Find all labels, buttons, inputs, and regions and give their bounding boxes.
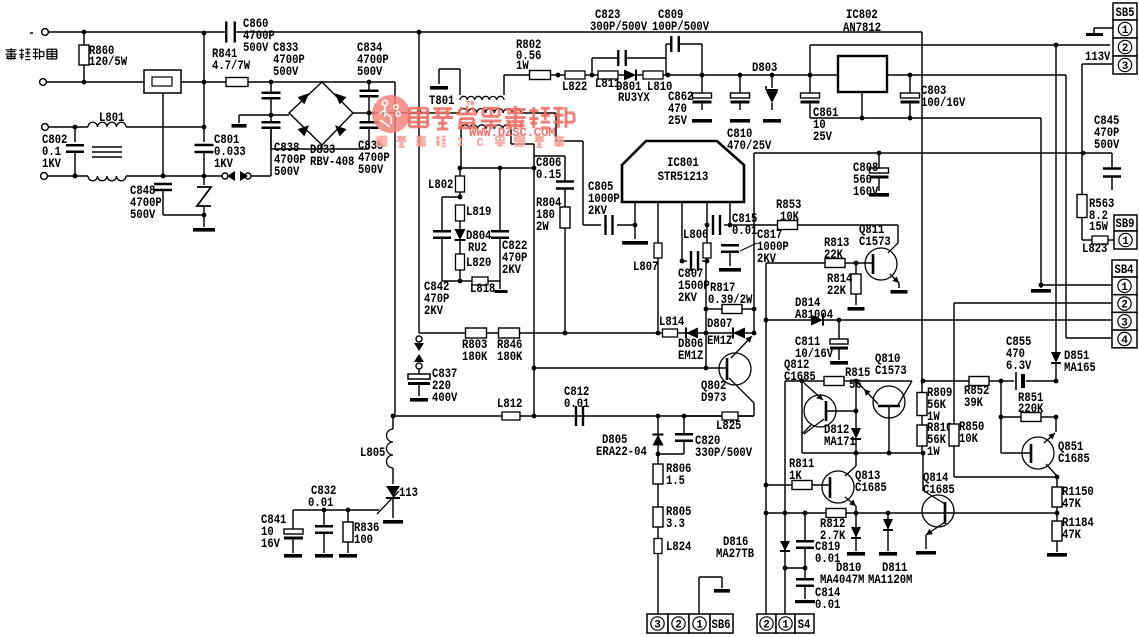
svg-text:2: 2 <box>763 620 770 632</box>
svg-text:S4: S4 <box>798 618 811 632</box>
svg-text:MA4047M: MA4047M <box>820 573 864 587</box>
svg-text:0.01: 0.01 <box>308 496 333 510</box>
svg-text:4: 4 <box>1121 335 1128 347</box>
svg-text:0.01: 0.01 <box>815 552 840 566</box>
svg-text:AN7812: AN7812 <box>843 21 881 35</box>
svg-text:RU2: RU2 <box>468 241 487 255</box>
svg-text:3.3: 3.3 <box>666 517 685 531</box>
svg-text:330P/500V: 330P/500V <box>695 446 753 460</box>
svg-text:D807: D807 <box>707 317 732 331</box>
svg-text:MA171: MA171 <box>824 435 856 449</box>
svg-text:C1573: C1573 <box>859 235 891 249</box>
svg-text:EM1Z: EM1Z <box>707 334 732 348</box>
svg-text:SB5: SB5 <box>1116 6 1135 20</box>
svg-text:2: 2 <box>675 620 682 632</box>
svg-text:L806: L806 <box>683 228 708 242</box>
svg-text:C1573: C1573 <box>875 364 907 378</box>
svg-text:L805: L805 <box>360 446 385 460</box>
svg-text:SB6: SB6 <box>712 618 731 632</box>
svg-text:MA27TB: MA27TB <box>716 547 755 561</box>
svg-text:RBV-408: RBV-408 <box>310 155 354 169</box>
svg-text:SB4: SB4 <box>1115 263 1134 277</box>
svg-text:113: 113 <box>399 486 418 500</box>
svg-text:113V: 113V <box>1085 50 1111 64</box>
svg-text:16V: 16V <box>261 537 280 551</box>
svg-text:IC802: IC802 <box>846 8 878 22</box>
svg-text:1: 1 <box>1122 25 1129 37</box>
svg-text:D803: D803 <box>752 61 777 75</box>
svg-text:C: C <box>477 136 484 150</box>
svg-text:EM1Z: EM1Z <box>678 349 703 363</box>
svg-text:MA1120M: MA1120M <box>868 573 912 587</box>
svg-text:2KV: 2KV <box>424 304 443 318</box>
svg-text:47K: 47K <box>1062 497 1081 511</box>
svg-text:120/5W: 120/5W <box>89 55 128 69</box>
svg-text:RU3YX: RU3YX <box>618 91 650 105</box>
svg-text:L824: L824 <box>666 540 692 554</box>
svg-text:MA165: MA165 <box>1064 361 1096 375</box>
svg-text:L822: L822 <box>562 80 587 94</box>
svg-text:0.39/2W: 0.39/2W <box>708 293 753 307</box>
svg-text:500V: 500V <box>1094 138 1120 152</box>
svg-text:L825: L825 <box>716 419 741 433</box>
svg-text:500V: 500V <box>273 65 299 79</box>
svg-text:0.01: 0.01 <box>815 598 840 612</box>
svg-text:100P/500V: 100P/500V <box>652 20 710 34</box>
svg-text:SB9: SB9 <box>1116 217 1135 231</box>
svg-text:3: 3 <box>1121 317 1128 329</box>
svg-text:10K: 10K <box>959 432 978 446</box>
svg-text:STR51213: STR51213 <box>658 170 709 184</box>
svg-text:ERA22-04: ERA22-04 <box>596 445 647 459</box>
svg-text:2: 2 <box>1122 43 1129 55</box>
svg-text:1KV: 1KV <box>42 157 61 171</box>
svg-text:D973: D973 <box>701 391 726 405</box>
svg-text:2KV: 2KV <box>678 291 697 305</box>
svg-text:2: 2 <box>1121 300 1128 312</box>
svg-text:I: I <box>457 136 464 150</box>
svg-text:100/16V: 100/16V <box>921 96 966 110</box>
svg-text:3: 3 <box>1122 61 1129 73</box>
svg-text:470/25V: 470/25V <box>727 139 772 153</box>
svg-text:1KV: 1KV <box>214 157 233 171</box>
svg-text:25V: 25V <box>813 130 832 144</box>
svg-text:1W: 1W <box>516 59 529 73</box>
svg-text:C1685: C1685 <box>855 481 887 495</box>
svg-text:0.01: 0.01 <box>564 397 589 411</box>
svg-text:39K: 39K <box>964 396 983 410</box>
svg-text:IC801: IC801 <box>667 156 699 170</box>
svg-text:10K: 10K <box>780 210 799 224</box>
svg-text:4.7/7W: 4.7/7W <box>212 59 251 73</box>
svg-text:L802: L802 <box>428 178 453 192</box>
svg-text:6.3V: 6.3V <box>1006 359 1032 373</box>
svg-text:160V: 160V <box>853 185 879 199</box>
svg-text:500V: 500V <box>358 163 384 177</box>
svg-text:180K: 180K <box>462 350 488 364</box>
svg-text:0.15: 0.15 <box>536 168 561 182</box>
svg-text:L814: L814 <box>659 315 685 329</box>
svg-text:15W: 15W <box>1089 220 1108 234</box>
svg-text:500V: 500V <box>274 165 300 179</box>
svg-text:500V: 500V <box>130 208 156 222</box>
svg-text:L820: L820 <box>466 256 491 270</box>
svg-text:1W: 1W <box>927 445 940 459</box>
svg-text:1.5: 1.5 <box>666 474 685 488</box>
svg-text:500V: 500V <box>357 65 383 79</box>
svg-text:47K: 47K <box>1062 528 1081 542</box>
svg-text:2KV: 2KV <box>588 204 607 218</box>
svg-text:3: 3 <box>654 620 661 632</box>
svg-text:L812: L812 <box>497 397 522 411</box>
svg-text:1: 1 <box>1122 236 1129 248</box>
svg-text:A81004: A81004 <box>795 308 834 322</box>
svg-text:2W: 2W <box>536 220 549 234</box>
svg-text:500V: 500V <box>243 41 269 55</box>
svg-text:L818: L818 <box>470 282 495 296</box>
svg-text:1: 1 <box>1121 282 1128 294</box>
svg-text:1K: 1K <box>789 469 802 483</box>
svg-text:L823: L823 <box>1082 242 1107 256</box>
svg-text:C1685: C1685 <box>1058 452 1090 466</box>
svg-text:100: 100 <box>354 533 373 547</box>
svg-text:L819: L819 <box>466 205 491 219</box>
svg-text:180K: 180K <box>497 350 523 364</box>
svg-text:L807: L807 <box>633 260 658 274</box>
svg-text:2KV: 2KV <box>502 263 521 277</box>
svg-text:25V: 25V <box>668 114 687 128</box>
svg-text:400V: 400V <box>432 391 458 405</box>
svg-text:300P/500V: 300P/500V <box>590 20 648 34</box>
svg-text:L801: L801 <box>99 111 124 125</box>
svg-text:220K: 220K <box>1018 402 1044 416</box>
svg-text:22K: 22K <box>824 248 843 262</box>
svg-text:1: 1 <box>696 620 703 632</box>
svg-text:T801: T801 <box>429 94 454 108</box>
svg-text:22K: 22K <box>827 284 846 298</box>
svg-text:1: 1 <box>782 620 789 632</box>
